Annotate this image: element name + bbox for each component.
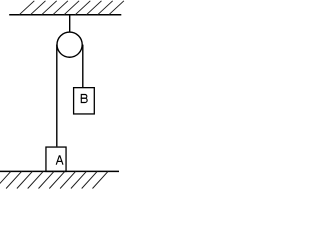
block A — [46, 147, 66, 171]
ceiling hatching — [19, 1, 124, 15]
right rope to block B — [82, 45, 84, 88]
pulley circle — [57, 32, 82, 57]
block B — [74, 88, 95, 114]
ceiling line — [9, 14, 121, 16]
label B — [81, 95, 87, 103]
left rope to block A — [56, 45, 58, 147]
floor hatching — [0, 171, 108, 188]
label A — [56, 156, 62, 164]
floor line — [0, 170, 119, 172]
pulley hanger wire — [69, 15, 71, 32]
